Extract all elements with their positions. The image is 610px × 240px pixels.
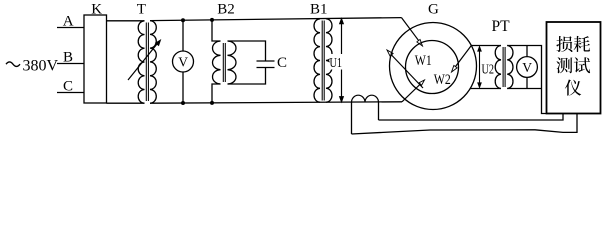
arrow U1 (341, 21, 343, 101)
loss tester text line2 (556, 57, 572, 73)
svg-text:V: V (522, 60, 532, 75)
junction dot top V1 (181, 18, 185, 22)
PT primary winding (495, 46, 501, 89)
svg-text:T: T (137, 2, 146, 18)
transformer B2 core (222, 43, 224, 82)
wire stator to PT top (471, 45, 501, 47)
svg-text:B2: B2 (217, 2, 235, 18)
CT terminal right (378, 102, 380, 120)
voltmeter V1 leads (182, 20, 184, 51)
svg-text:U1: U1 (330, 55, 343, 70)
capacitor C loop top (228, 41, 266, 61)
variac T core (145, 23, 147, 102)
PT secondary winding (507, 46, 513, 89)
loss tester text line3 (565, 80, 581, 96)
stator bore inner circle (406, 41, 459, 94)
PT secondary loop (507, 46, 546, 114)
transformer B1 primary winding (314, 19, 320, 102)
voltmeter V1 (173, 51, 194, 72)
transformer B1 secondary winding (326, 19, 332, 103)
top bus wire (150, 18, 402, 21)
wire K to T top (107, 20, 145, 22)
PT core (502, 47, 504, 87)
loss tester box (547, 22, 601, 114)
transformer B2 primary lead top (212, 20, 221, 41)
junction dot bottom B2 (210, 101, 214, 105)
loss tester text line1 (556, 36, 572, 52)
wire CT right to tester (379, 114, 564, 121)
arrow U2 (479, 48, 481, 86)
wire B1 to stator top lead (402, 18, 422, 45)
svg-text:PT: PT (492, 18, 511, 35)
AC source tilde (6, 62, 20, 67)
transformer B2 primary winding (213, 41, 221, 84)
bottom bus wire (150, 102, 402, 103)
svg-text:W1: W1 (415, 53, 432, 69)
svg-text:C: C (277, 55, 287, 71)
label U1 (330, 54, 345, 70)
junction dot bottom V1 (181, 101, 185, 105)
phase line C (57, 92, 84, 94)
CT terminal left (351, 102, 353, 134)
wire CT left to tester (352, 114, 578, 135)
current transformer CT winding (352, 95, 379, 102)
transformer B1 core (321, 21, 323, 101)
measuring lead W2 arrow (453, 46, 472, 71)
transformer B2 primary lead bottom (212, 84, 221, 103)
capacitor C loop bottom (228, 68, 266, 85)
svg-text:380V: 380V (23, 58, 59, 75)
stator wrap lead with arrow (388, 52, 423, 89)
transformer B2 secondary winding (228, 41, 236, 84)
svg-text:B1: B1 (310, 2, 328, 18)
svg-text:G: G (428, 2, 439, 18)
variac T primary winding (138, 21, 144, 103)
junction dot top B2 (210, 18, 214, 22)
svg-text:W2: W2 (434, 72, 451, 88)
variac T secondary winding (150, 21, 156, 104)
switch box K (84, 15, 107, 103)
stator bottom lead diagonal (402, 81, 424, 102)
voltmeter V2 (517, 57, 538, 78)
variac T wiper arrow (128, 42, 159, 81)
voltmeter V2 leads (526, 46, 528, 57)
phase line B (57, 63, 84, 65)
phase line A (57, 27, 84, 29)
svg-text:V: V (178, 54, 188, 69)
stator core outer circle (390, 23, 477, 110)
wire K to T bottom (107, 102, 145, 104)
capacitor C plates (257, 60, 275, 62)
wire stator to PT bottom (470, 88, 501, 90)
svg-text:U2: U2 (482, 62, 495, 77)
